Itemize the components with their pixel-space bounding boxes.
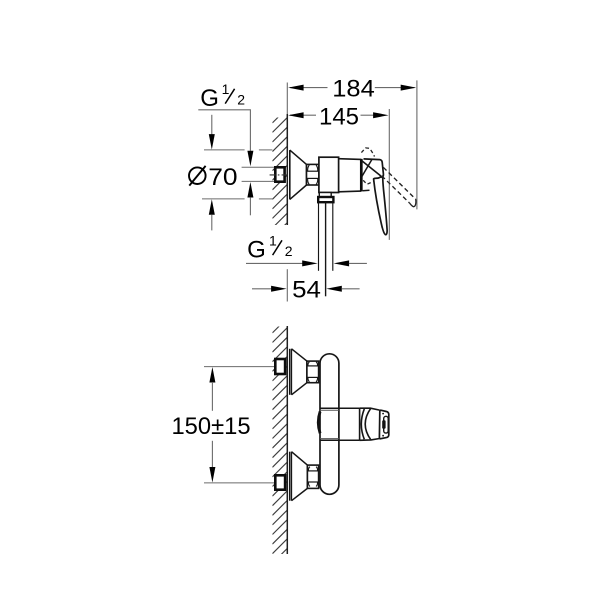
dimension 54 (252, 269, 360, 303)
svg-text:1: 1 (269, 233, 277, 249)
lower escutcheon (lower view) (290, 452, 308, 501)
body capsule (lower view) (320, 354, 339, 495)
svg-text:1: 1 (222, 81, 230, 97)
handle grip (lower view) (360, 408, 380, 440)
dimension Ø70 (escutcheon diameter) (189, 115, 272, 231)
wall hatch (top view) (272, 108, 287, 247)
lever blade solid (top view) (374, 177, 388, 235)
wall hatch (lower view) (272, 318, 287, 583)
lower square union (lower view) (275, 475, 285, 489)
valve body (top view) (319, 157, 339, 192)
dimension 150±15 (171, 367, 274, 483)
lever raised position dashed outline (top view) (361, 148, 374, 157)
wall line (top view) (286, 83, 288, 226)
shower hose connection lines (top view) (319, 202, 333, 296)
svg-text:2: 2 (285, 243, 293, 259)
escutcheon cone (top view) (290, 150, 307, 199)
label G 1/2 (wall connection) (198, 81, 274, 215)
lower hex nut (lower view) (307, 465, 318, 488)
hex nut (top view) (307, 164, 319, 185)
upper hex nut (lower view) (307, 361, 319, 383)
svg-text:70: 70 (208, 164, 237, 191)
label G 1/2 (hose connection) (246, 233, 367, 267)
wall line (lower view) (286, 326, 288, 554)
svg-text:G: G (200, 85, 219, 112)
svg-text:2: 2 (237, 92, 245, 108)
lever alternate position dashed (top view) (382, 167, 416, 206)
svg-text:54: 54 (292, 276, 321, 303)
dimension 184 (288, 76, 417, 209)
svg-text:150±15: 150±15 (171, 413, 250, 440)
svg-text:145: 145 (319, 104, 359, 131)
dimension 145 (288, 104, 389, 240)
svg-text:G: G (247, 236, 266, 263)
lever handle dome (top view) (362, 159, 384, 191)
cartridge section lines (lower view) (318, 408, 359, 440)
shower outlet fitting (top view) (318, 193, 333, 203)
cartridge sleeve (top view) (339, 159, 362, 192)
upper square union (lower view) (275, 359, 285, 374)
svg-text:184: 184 (332, 76, 375, 102)
square union fitting (top view) (270, 167, 288, 181)
upper escutcheon (lower view) (290, 349, 307, 395)
handle end cap (lower view) (379, 410, 388, 439)
